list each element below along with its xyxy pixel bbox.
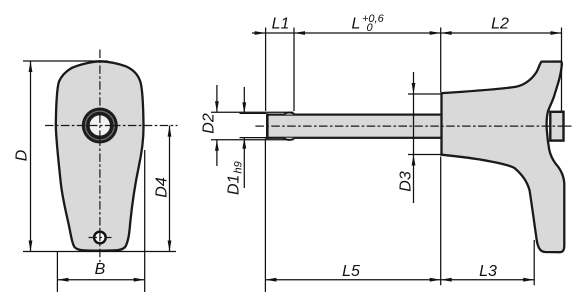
side view: locking ball top xyxy=(284,113,296,115)
side view: shaft centerline xyxy=(255,125,563,127)
dimension D: top extension line xyxy=(23,60,108,62)
dimensions L1, L, L2: dimension line xyxy=(252,32,562,34)
dimension L3: right arrow xyxy=(523,278,534,282)
dimension D4: top arrow xyxy=(168,126,172,137)
front view: horizontal centerline right segment xyxy=(112,125,178,127)
svg-text:L1: L1 xyxy=(272,16,290,33)
dimensions L5, L3: dimension line xyxy=(265,279,534,281)
dimension B: right arrow xyxy=(134,278,145,282)
dimension B: right extension line xyxy=(144,150,146,292)
dimension D1 h9: top arrow xyxy=(242,102,246,113)
svg-text:L: L xyxy=(352,16,361,33)
dimension D2: bottom extension line xyxy=(211,139,294,141)
dimension D3: dimension line across shaft xyxy=(413,94,415,155)
front view: bottom rivet hole xyxy=(94,232,106,244)
front view: vertical centerline upper segment xyxy=(99,50,101,114)
dimension D1 h9: bottom arrow xyxy=(242,138,246,149)
side view: pin tip face xyxy=(266,113,269,139)
front view: horizontal centerline left segment xyxy=(45,125,88,127)
dimension L/L2: shared extension line xyxy=(440,28,442,93)
side view: T-grip handle profile xyxy=(442,62,565,253)
dimension L2: left arrow xyxy=(441,31,452,35)
svg-text:L2: L2 xyxy=(491,16,509,33)
dimension L1: outside arrow xyxy=(255,31,266,35)
svg-text:D3: D3 xyxy=(398,171,415,192)
front view: rivet hole crosshair xyxy=(89,237,112,239)
dimension D: top arrow xyxy=(29,61,33,72)
dimension L5/L3: shared extension line xyxy=(440,157,442,286)
dimension D3: bottom tail xyxy=(413,155,415,204)
svg-text:L5: L5 xyxy=(342,263,360,280)
front view: T-grip handle outline xyxy=(56,61,144,250)
dimension D1 h9: top extension line xyxy=(240,112,267,114)
dimension B: left extension line xyxy=(56,252,58,292)
side view: shaft centerline end dash xyxy=(564,125,572,127)
svg-text:D4: D4 xyxy=(154,177,171,198)
dimension D4: dimension line xyxy=(169,126,171,252)
dimension L2: right extension line xyxy=(561,28,563,112)
dimension D and D4: shared bottom extension line xyxy=(23,251,176,253)
dimension L3: left arrow xyxy=(441,278,452,282)
dimension D2: top tail xyxy=(216,85,218,112)
svg-text:0: 0 xyxy=(367,22,374,34)
dimension D3: bottom arrow xyxy=(412,155,416,166)
dimension D1 h9: bottom extension line xyxy=(240,137,267,139)
dimension B: left arrow xyxy=(57,278,68,282)
front view: pin bore ring mid highlight xyxy=(85,111,114,140)
side view: pin end cap xyxy=(550,112,563,141)
dimension L1/L: shared extension line xyxy=(293,28,295,112)
dimension L1: left extension line xyxy=(265,28,267,112)
dimension D1 h9: bottom tail xyxy=(243,138,245,188)
dimension D: bottom arrow xyxy=(29,241,33,252)
dimension B: dimension line xyxy=(57,279,144,281)
dimension D3: bottom extension line xyxy=(408,154,441,156)
dimension D3: top tail xyxy=(413,72,415,94)
svg-text:D: D xyxy=(14,149,31,161)
dimension L2: right arrow xyxy=(551,31,562,35)
svg-text:+0,6: +0,6 xyxy=(362,13,385,25)
front view: bore crosshair horizontal tick xyxy=(89,125,111,127)
svg-text:D2: D2 xyxy=(201,113,218,134)
dimension D: dimension line xyxy=(30,61,32,252)
dimension L: left arrow xyxy=(294,31,305,35)
dimension L: right arrow xyxy=(430,31,441,35)
side view: pin shaft xyxy=(267,115,442,138)
front view: vertical centerline lower segment xyxy=(99,138,101,264)
front view: pin bore inner circle xyxy=(89,115,111,137)
dimension L3: right extension line xyxy=(533,240,535,285)
dimension D1 h9: top tail xyxy=(243,87,245,113)
dimension D4: bottom arrow xyxy=(168,241,172,252)
svg-text:L3: L3 xyxy=(479,263,497,280)
dimension D2: bottom arrow xyxy=(215,140,219,151)
dimension D2: top extension line xyxy=(211,111,294,113)
dimension D3: top arrow xyxy=(412,83,416,94)
dimension D3: top extension line xyxy=(408,93,441,95)
dimension L5: left arrow xyxy=(265,278,276,282)
dimension D2: bottom tail xyxy=(216,140,218,166)
dimension D2: top arrow xyxy=(215,101,219,112)
svg-text:B: B xyxy=(95,261,106,278)
dimension L5: left extension line xyxy=(264,139,266,293)
side view: locking ball bottom xyxy=(284,138,296,140)
front view: bore crosshair vertical tick xyxy=(99,115,101,137)
front view: pin bore ring outer xyxy=(82,108,118,144)
dimension L5: right arrow xyxy=(430,278,441,282)
